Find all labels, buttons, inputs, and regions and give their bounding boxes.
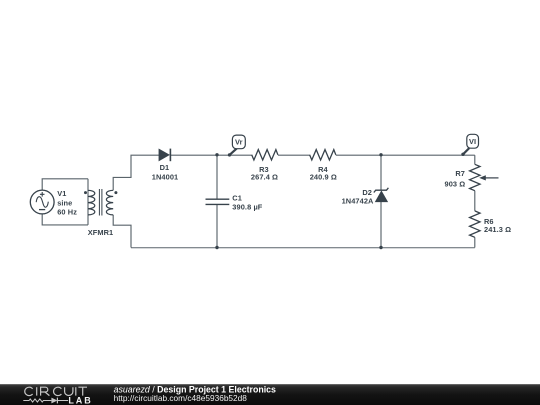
svg-text:240.9 Ω: 240.9 Ω: [310, 173, 337, 182]
label C1 390.8 uF: [232, 194, 263, 212]
svg-text:XFMR1: XFMR1: [88, 228, 114, 237]
wire V1 bottom to transformer primary: [42, 214, 88, 225]
resistor R6: [470, 211, 480, 237]
wire R6 to bottom rail: [474, 237, 476, 247]
svg-text:http://circuitlab.com/c48e5936: http://circuitlab.com/c48e5936b52d8: [114, 393, 248, 403]
transformer XFMR1 phasing dot left: [84, 191, 87, 194]
label R7 903 ohm: [444, 169, 465, 189]
svg-text:VI: VI: [469, 137, 476, 146]
wire transformer secondary bottom to bottom rail: [113, 215, 131, 248]
wire C1 bottom plate to bottom rail: [216, 204, 218, 247]
voltage source V1: [30, 190, 54, 214]
CircuitLab logo schematic line: [23, 398, 68, 404]
svg-text:267.4 Ω: 267.4 Ω: [251, 173, 278, 182]
node junction bottom rail left: [215, 246, 218, 249]
svg-text:R7: R7: [455, 169, 465, 178]
capacitor C1: [206, 199, 230, 204]
label D2 1N4742A: [342, 188, 374, 206]
wire V1 top to transformer primary: [42, 179, 88, 190]
node junction at C1 top: [215, 153, 218, 156]
diode D1: [159, 149, 171, 162]
svg-text:LAB: LAB: [68, 395, 92, 405]
transformer XFMR1 secondary winding: [106, 190, 113, 215]
CircuitLab logo CIRCUIT text: [25, 387, 87, 395]
transformer XFMR1 phasing dot right: [114, 191, 117, 194]
svg-text:390.8 µF: 390.8 µF: [232, 202, 263, 211]
net flag VI: [461, 134, 478, 156]
zener diode D2: [374, 188, 389, 202]
CircuitLab logo LAB text: [68, 395, 92, 405]
resistor R3: [252, 150, 278, 160]
wire node to D2 cathode: [380, 155, 382, 190]
label D1 1N4001: [152, 163, 179, 181]
potentiometer R7: [470, 164, 499, 190]
wire bottom rail: [131, 247, 475, 249]
node junction bottom rail right: [379, 246, 382, 249]
wire top right corner to R7: [474, 155, 476, 164]
transformer XFMR1 primary winding: [88, 190, 95, 215]
svg-text:C1: C1: [232, 194, 242, 203]
wire transformer secondary top to D1 anode: [113, 155, 159, 190]
svg-text:sine: sine: [57, 199, 72, 208]
svg-text:1N4742A: 1N4742A: [342, 196, 374, 205]
label XFMR1: [88, 228, 114, 237]
net flag Vr: [228, 135, 245, 156]
wire node to C1 top plate: [216, 155, 218, 199]
wire R3 to R4: [278, 154, 310, 156]
svg-text:D1: D1: [160, 163, 170, 172]
label R4 240.9 ohm: [310, 165, 337, 181]
wire D2 anode to bottom rail: [380, 202, 382, 248]
label R3 267.4 ohm: [251, 165, 278, 181]
wire D1 cathode to node Vr and R3: [170, 154, 251, 156]
svg-text:60 Hz: 60 Hz: [57, 207, 77, 216]
footer title text: [114, 384, 276, 402]
svg-text:903 Ω: 903 Ω: [444, 180, 465, 189]
wire primary vertical terminal line: [87, 179, 89, 225]
wire R7 to R6: [474, 191, 476, 211]
wire R4 to top right corner: [336, 154, 475, 156]
svg-text:241.3 Ω: 241.3 Ω: [484, 225, 511, 234]
label R6 241.3 ohm: [484, 217, 511, 234]
svg-text:Vr: Vr: [235, 138, 243, 147]
resistor R4: [310, 150, 336, 160]
transformer XFMR1 core: [99, 189, 102, 216]
svg-text:1N4001: 1N4001: [152, 172, 179, 181]
node junction at D2 top: [379, 153, 382, 156]
label V1 sine 60 Hz: [57, 189, 77, 216]
svg-text:V1: V1: [57, 189, 66, 198]
